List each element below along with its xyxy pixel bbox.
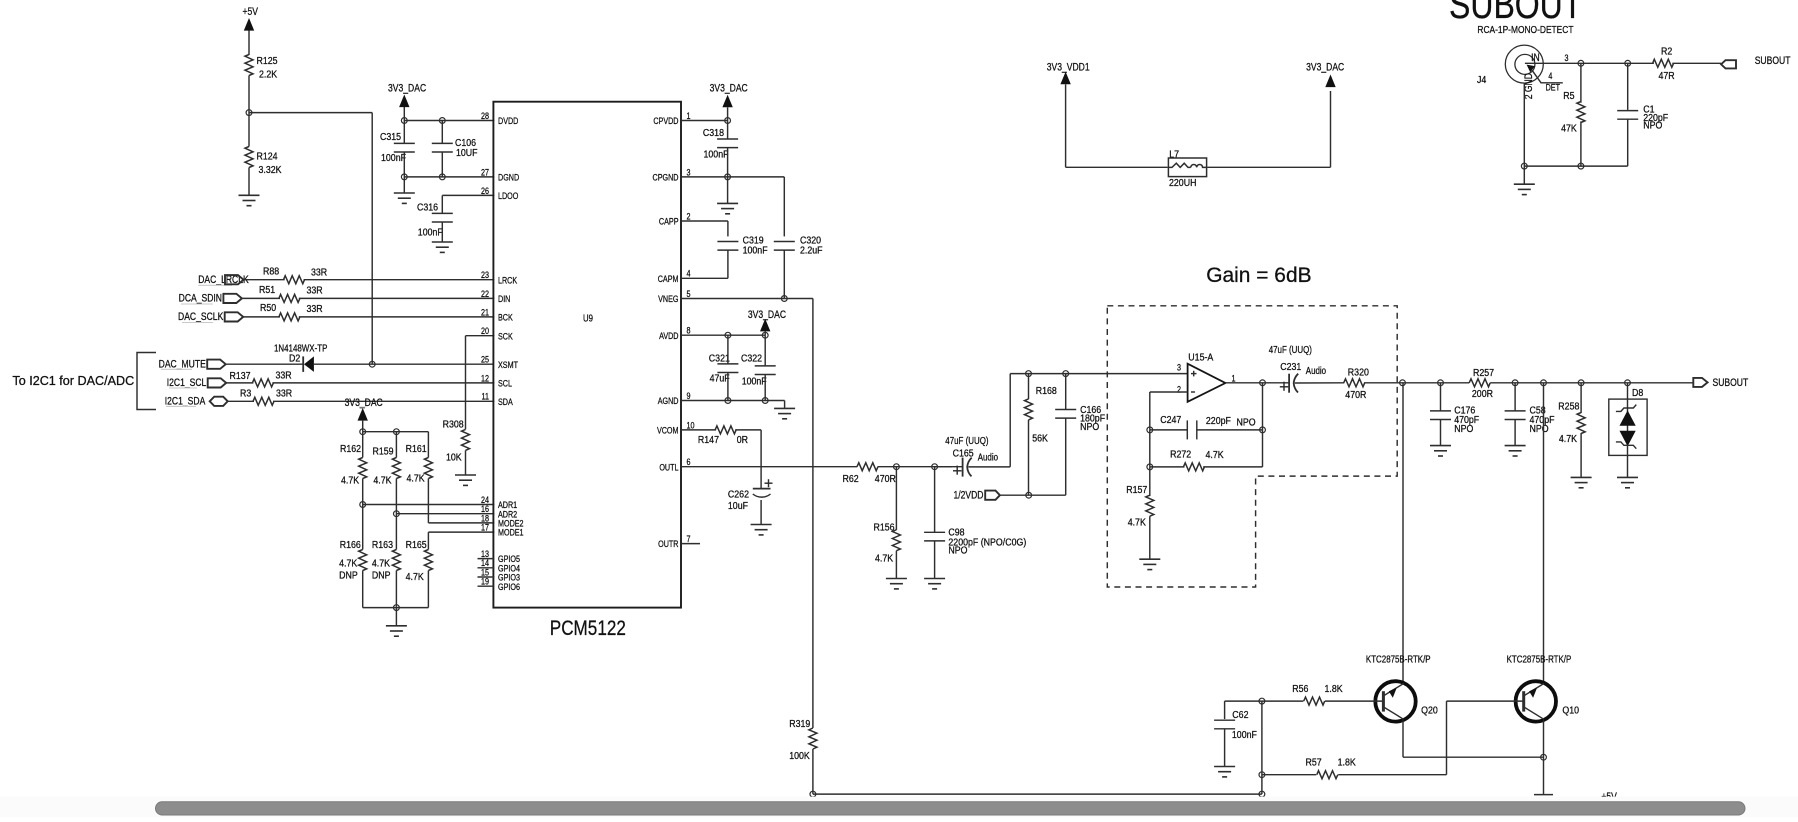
capacitor C1 [1617,63,1668,166]
svg-text:CPVDD: CPVDD [653,115,678,126]
svg-text:1: 1 [1231,372,1235,383]
svg-text:GPIO6: GPIO6 [498,581,520,592]
wire L7 to 3V3_DAC [1207,91,1330,167]
svg-text:R2: R2 [1661,46,1672,58]
svg-text:R56: R56 [1292,683,1308,695]
svg-text:26: 26 [481,185,489,196]
svg-text:DAC_LRCLK: DAC_LRCLK [198,274,249,286]
wire ADR2 net [394,511,495,517]
resistor R161 [406,432,433,523]
svg-text:Q10: Q10 [1562,705,1579,717]
power 3V3_DAC at AVDD [748,309,786,335]
ground below C98 [924,579,945,589]
svg-text:R257: R257 [1473,367,1494,379]
svg-text:4.7K: 4.7K [875,553,894,565]
svg-text:C321: C321 [709,353,730,365]
svg-text:BCK: BCK [498,311,513,322]
note RCA-1P-MONO-DETECT [1477,24,1573,36]
svg-text:1: 1 [687,110,691,121]
svg-text:25: 25 [481,354,489,365]
ground below C58 [1505,446,1526,456]
svg-text:3V3_DAC: 3V3_DAC [748,309,786,321]
port DAC_LRCLK [198,274,249,286]
svg-text:AGND: AGND [658,395,679,406]
wire subout row [1400,380,1694,386]
capacitor C321 [709,335,739,400]
wire divider to XSMT [249,113,372,365]
svg-text:47uF (UUQ): 47uF (UUQ) [1269,344,1312,355]
IC right pin labels [653,110,695,550]
resistor R5 [1561,63,1585,166]
wire CPGND net [681,174,784,180]
svg-text:10K: 10K [446,452,462,464]
resistor R272 [1147,430,1263,471]
ground AGND [774,408,795,418]
svg-text:4.7K: 4.7K [1128,517,1147,529]
wire DVDD net [401,118,494,124]
svg-text:47R: 47R [1659,70,1675,82]
power 3V3_DAC at pullups [345,397,429,435]
svg-text:Audio: Audio [978,451,998,462]
port SUBOUT right [1693,377,1748,389]
resistor R137 [226,370,494,387]
svg-text:11: 11 [482,391,490,402]
power 3V3_DAC at CPVDD [710,83,748,121]
svg-text:R5: R5 [1563,90,1574,102]
svg-text:R165: R165 [406,539,427,551]
svg-text:NPO: NPO [1530,423,1550,435]
wire jack ground bus [1521,163,1627,184]
svg-text:SUBOUT: SUBOUT [1449,0,1582,27]
wire bottom bus [810,791,1265,797]
svg-text:NPO: NPO [1237,417,1257,429]
svg-text:R168: R168 [1036,385,1057,397]
diode D2 1N4148WX-TP [226,343,494,372]
svg-text:100nF: 100nF [381,152,406,164]
svg-text:3: 3 [1565,52,1569,63]
wire Q10 collector [1543,383,1545,682]
svg-text:28: 28 [481,110,489,121]
svg-text:27: 27 [481,166,489,177]
svg-text:470R: 470R [1345,390,1366,402]
wire CPVDD net [681,118,730,124]
ground below C315 [394,177,415,204]
capacitor C320 [774,177,823,299]
svg-text:21: 21 [481,306,489,317]
svg-text:DNP: DNP [372,570,391,582]
svg-text:3V3_DAC: 3V3_DAC [388,83,426,95]
resistor R257 [1469,367,1494,400]
svg-text:R166: R166 [340,539,361,551]
svg-text:4.7K: 4.7K [373,475,392,487]
svg-text:NPO: NPO [948,545,968,557]
svg-text:33R: 33R [276,388,292,400]
svg-text:1.8K: 1.8K [1338,757,1357,769]
svg-text:2.2K: 2.2K [259,69,278,81]
svg-text:VCOM: VCOM [657,424,679,435]
svg-text:U15-A: U15-A [1188,352,1213,364]
resistor R163 [372,514,401,608]
svg-text:SCL: SCL [498,377,512,388]
svg-text:C231: C231 [1280,361,1301,373]
wire IN net [1543,60,1654,66]
port DAC_MUTE [159,358,226,370]
wire AVDD net [681,332,768,338]
resistor R258 [1558,383,1585,478]
resistor R159 [373,432,401,514]
svg-text:R272: R272 [1170,449,1191,461]
capacitor C315 [380,121,415,177]
svg-text:R159: R159 [373,446,394,458]
resistor R124 [245,125,282,195]
svg-text:+5V: +5V [243,6,259,18]
svg-text:C262: C262 [728,489,749,501]
svg-text:LDOO: LDOO [498,190,519,201]
svg-text:Q20: Q20 [1421,705,1438,717]
svg-text:56K: 56K [1032,433,1048,445]
scrollbar track [0,797,1798,817]
wire OUTL to opamp [1010,371,1187,467]
svg-text:DVDD: DVDD [498,115,518,126]
svg-text:Audio: Audio [1306,365,1326,376]
capacitor C231 electrolytic [1269,344,1345,393]
ground below R258 [1571,477,1592,487]
ground below pullups [386,626,407,636]
node XSMT junction [369,361,375,367]
resistor R2 [1653,46,1722,82]
resistor R3 [228,388,495,406]
svg-text:200R: 200R [1472,388,1493,400]
pin OUTR stub [681,543,700,545]
svg-text:47uF: 47uF [710,373,730,385]
svg-text:100nF: 100nF [418,227,443,239]
wire MODE2 net [428,522,494,524]
connector J4 RCA jack [1477,45,1569,166]
resistor R162 [340,432,367,505]
svg-text:100nF: 100nF [704,149,729,161]
ground below R308 [455,475,476,485]
svg-text:22: 22 [481,288,489,299]
note To I2C1 for DAC/ADC [12,374,134,388]
ground below R124 [239,195,260,205]
svg-text:9: 9 [687,390,691,401]
svg-text:4.7K: 4.7K [339,558,358,570]
port 1/2VDD [953,490,1065,502]
svg-text:CAPP: CAPP [659,216,679,227]
power +5V at Q10 [1534,791,1617,803]
port I2C1_SCL [167,377,226,389]
resistor R125 [245,55,278,101]
resistor R320 [1344,367,1403,402]
svg-text:DGND: DGND [498,171,519,182]
capacitor C98 [924,467,1026,579]
svg-text:PCM5122: PCM5122 [550,616,626,640]
scrollbar thumb [156,802,1746,815]
capacitor C62 [1214,701,1257,766]
dashed gain region box [1107,306,1397,587]
node divider junction [246,100,252,125]
svg-text:47K: 47K [1561,123,1577,135]
svg-text:47uF (UUQ): 47uF (UUQ) [945,435,988,446]
wire Q10 emitter [1543,721,1545,795]
svg-text:KTC2875B-RTK/P: KTC2875B-RTK/P [1366,653,1431,664]
svg-text:J4: J4 [1477,74,1487,86]
resistor R147 [681,426,761,489]
svg-text:CAPM: CAPM [658,273,679,284]
svg-text:R308: R308 [443,419,464,431]
IC GPIO pin stubs [478,559,495,587]
port DCA_SDIN [179,293,242,305]
svg-text:100K: 100K [789,750,810,762]
svg-text:1/2VDD: 1/2VDD [953,490,983,502]
capacitor C247 [1147,415,1266,440]
svg-text:C315: C315 [380,131,401,143]
svg-text:R319: R319 [789,718,810,730]
svg-text:L7: L7 [1169,149,1179,161]
svg-text:4: 4 [687,268,691,279]
svg-text:R137: R137 [230,370,251,382]
resistor R319 [789,718,817,794]
resistor R51 [242,284,494,302]
resistor R62 [843,463,896,486]
svg-text:R125: R125 [257,55,278,67]
svg-text:MODE1: MODE1 [498,527,524,538]
capacitor C262 [728,479,773,524]
ground below C62 [1214,767,1235,777]
svg-text:NPO: NPO [1643,120,1663,132]
svg-text:4.7K: 4.7K [1559,433,1578,445]
svg-text:0R: 0R [737,434,748,446]
svg-text:SUBOUT: SUBOUT [1755,55,1791,67]
svg-text:6: 6 [687,456,691,467]
capacitor C316 [417,195,494,242]
resistor R157 [1126,467,1154,559]
port DAC_SCLK [178,311,243,323]
svg-text:1.8K: 1.8K [1325,683,1344,695]
title SUBOUT [1449,0,1582,27]
svg-text:U9: U9 [583,313,593,324]
ground below C262 [751,525,772,535]
svg-text:R162: R162 [340,443,361,455]
svg-text:OUTL: OUTL [659,461,678,472]
power 3V3_VDD1 [1047,61,1090,167]
capacitor C58 [1505,383,1555,446]
svg-text:R156: R156 [874,522,895,534]
svg-text:10: 10 [687,419,695,430]
wire opamp minus input [1150,392,1188,430]
svg-text:R88: R88 [263,266,279,278]
svg-text:LRCK: LRCK [498,274,517,285]
ground below C316 [432,242,453,252]
svg-text:33R: 33R [307,303,323,315]
svg-text:23: 23 [481,269,489,280]
ground below R156 [886,579,907,589]
svg-text:12: 12 [481,372,489,383]
svg-text:100nF: 100nF [743,245,768,257]
svg-text:3V3_DAC: 3V3_DAC [710,83,748,95]
svg-text:100nF: 100nF [1232,729,1257,741]
svg-text:1N4148WX-TP: 1N4148WX-TP [274,343,327,354]
svg-text:2.2uF: 2.2uF [800,245,823,257]
resistor R165 [406,539,433,607]
svg-text:DET: DET [1546,81,1560,92]
svg-text:R161: R161 [406,443,427,455]
svg-text:R62: R62 [843,474,859,486]
power +5V [243,6,259,55]
power 3V3_DAC at DVDD [388,83,426,121]
ground below CPGND [717,177,738,214]
wire OUTL net [681,464,952,470]
capacitor C322 [741,335,776,400]
wire R57 to Q10 base [1447,701,1524,775]
svg-text:4.7K: 4.7K [341,475,360,487]
svg-text:R124: R124 [257,151,279,163]
wire Q20 emitter [1403,721,1546,761]
svg-text:C318: C318 [703,127,724,139]
power 3V3_DAC right [1306,61,1344,87]
ground below J4 [1514,184,1535,194]
resistor R88 [244,266,495,284]
svg-text:R157: R157 [1126,484,1147,496]
wire base bus vertical [1259,701,1265,794]
svg-text:470R: 470R [875,474,896,486]
svg-text:NPO: NPO [1454,423,1474,435]
svg-text:R51: R51 [259,284,275,296]
IC left pin labels [481,110,524,592]
resistor R168 [1025,374,1057,496]
port SUBOUT top [1721,55,1790,68]
svg-text:4.7K: 4.7K [406,571,425,583]
svg-text:3V3_DAC: 3V3_DAC [1306,61,1344,73]
capacitor C318 [703,121,738,177]
wire DGND net [401,174,494,180]
port I2C1_SDA [165,395,228,407]
capacitor C166 [1055,374,1105,496]
svg-text:DIN: DIN [498,293,510,304]
ground below R157 [1139,559,1160,569]
bracket [137,353,156,410]
wire VNEG net [681,296,813,728]
svg-text:SUBOUT: SUBOUT [1713,377,1749,389]
svg-text:IN: IN [1531,52,1540,64]
svg-text:C322: C322 [741,353,762,365]
svg-text:DNP: DNP [339,570,358,582]
svg-text:4.7K: 4.7K [1206,449,1225,461]
svg-text:10uF: 10uF [728,501,748,513]
svg-text:33R: 33R [276,370,292,382]
svg-text:3: 3 [1177,362,1181,373]
svg-text:R147: R147 [698,434,719,446]
svg-text:2: 2 [687,210,691,221]
ground below D8 [1617,477,1638,487]
svg-text:8: 8 [687,325,691,336]
resistor R308 [443,336,495,475]
ground below C176 [1430,446,1451,456]
wire to L7 [1066,166,1168,168]
svg-text:5: 5 [687,288,691,299]
svg-text:R258: R258 [1558,401,1579,413]
wire ADR1 net [360,502,494,508]
note Gain = 6dB [1206,263,1311,287]
svg-text:AVDD: AVDD [659,330,678,341]
svg-text:CPGND: CPGND [653,171,679,182]
capacitor C176 [1430,383,1479,446]
capacitor C106 [432,121,478,177]
svg-text:D2: D2 [289,353,300,365]
svg-text:D8: D8 [1632,387,1643,399]
svg-text:2: 2 [1177,383,1181,394]
svg-text:33R: 33R [307,285,323,297]
svg-text:R50: R50 [260,303,277,315]
svg-text:4.7K: 4.7K [372,558,391,570]
svg-text:R320: R320 [1348,367,1370,379]
svg-text:7: 7 [687,533,691,544]
svg-text:VNEG: VNEG [658,293,678,304]
svg-text:3.32K: 3.32K [259,164,283,176]
svg-text:OUTR: OUTR [658,538,678,549]
svg-text:33R: 33R [311,267,327,279]
diode D8 TVS [1609,383,1647,478]
capacitor C319 [681,221,768,278]
svg-text:C247: C247 [1160,415,1181,427]
svg-text:SCK: SCK [498,330,513,341]
svg-text:220UH: 220UH [1169,177,1196,189]
svg-text:17: 17 [481,521,489,532]
inductor L7 220UH [1168,149,1206,189]
svg-text:DAC_SCLK: DAC_SCLK [178,311,224,323]
svg-text:4.7K: 4.7K [407,473,426,485]
svg-text:20: 20 [481,325,489,336]
svg-text:3V3_VDD1: 3V3_VDD1 [1047,61,1090,73]
transistor Q10 KTC2875B-RTK/P [1507,653,1580,721]
resistor R156 [874,467,901,579]
wire pullup gnd bus [363,605,429,626]
svg-text:220pF: 220pF [1206,415,1231,427]
svg-text:RCA-1P-MONO-DETECT: RCA-1P-MONO-DETECT [1477,24,1573,36]
wire AGND net [681,398,785,409]
resistor R166 [339,505,367,608]
svg-text:3: 3 [687,166,691,177]
svg-text:R57: R57 [1306,757,1322,769]
wire C62 top to R56 [1225,698,1265,704]
svg-text:R3: R3 [240,388,251,400]
svg-text:C62: C62 [1232,709,1248,721]
capacitor C165 electrolytic [935,435,1011,477]
svg-text:To I2C1 for DAC/ADC: To I2C1 for DAC/ADC [12,374,134,388]
op-amp U15-A [1177,352,1236,402]
transistor Q20 KTC2875B-RTK/P [1366,653,1438,721]
wire MODE1 net [428,532,494,549]
svg-text:R163: R163 [372,539,393,551]
svg-text:KTC2875B-RTK/P: KTC2875B-RTK/P [1507,653,1572,664]
resistor R50 [243,303,494,321]
svg-text:XSMT: XSMT [498,359,518,370]
resistor R56 [1262,683,1384,705]
wire opamp output [1226,380,1289,430]
svg-text:Gain = 6dB: Gain = 6dB [1206,263,1311,287]
svg-text:100nF: 100nF [742,376,767,388]
svg-text:SDA: SDA [498,396,513,407]
resistor R57 [1262,757,1447,779]
IC U9 PCM5122 body [493,102,681,641]
wire Q20 collector [1402,383,1404,682]
svg-text:C316: C316 [417,202,438,214]
svg-text:10UF: 10UF [456,147,478,159]
svg-text:NPO: NPO [1080,421,1100,433]
svg-text:DCA_SDIN: DCA_SDIN [179,293,222,305]
svg-text:4: 4 [1548,70,1552,81]
